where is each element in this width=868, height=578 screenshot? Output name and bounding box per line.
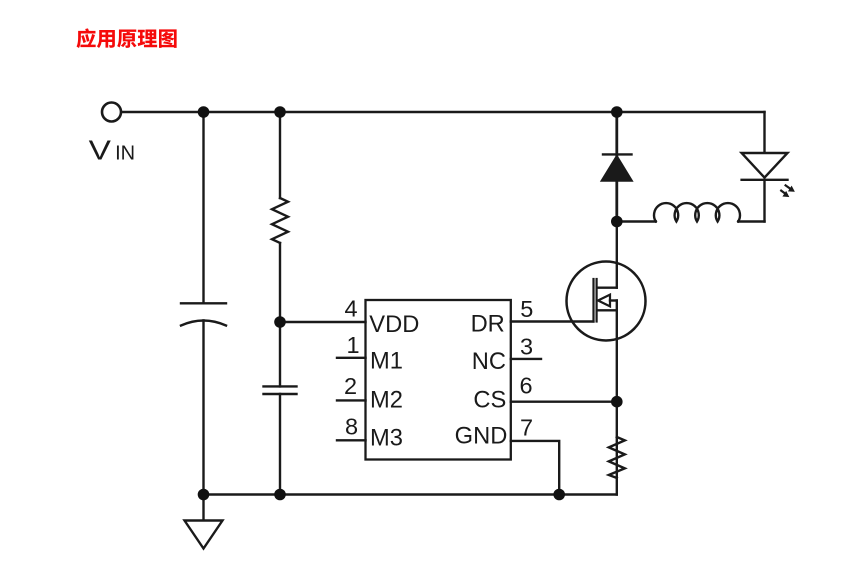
svg-text:4: 4	[344, 296, 357, 322]
svg-text:M2: M2	[370, 388, 403, 414]
svg-text:V: V	[89, 135, 112, 166]
svg-text:GND: GND	[455, 424, 508, 450]
svg-text:M3: M3	[370, 425, 403, 451]
svg-text:2: 2	[344, 373, 357, 399]
svg-text:7: 7	[520, 415, 533, 441]
svg-text:VDD: VDD	[369, 312, 419, 338]
svg-text:M1: M1	[370, 348, 403, 374]
svg-text:5: 5	[520, 296, 533, 322]
svg-text:IN: IN	[115, 143, 135, 165]
svg-text:6: 6	[519, 372, 532, 398]
svg-text:DR: DR	[471, 311, 505, 337]
svg-text:3: 3	[520, 333, 533, 359]
svg-text:CS: CS	[473, 388, 506, 414]
svg-text:NC: NC	[472, 349, 506, 375]
svg-text:8: 8	[345, 414, 358, 440]
svg-text:1: 1	[346, 332, 359, 358]
